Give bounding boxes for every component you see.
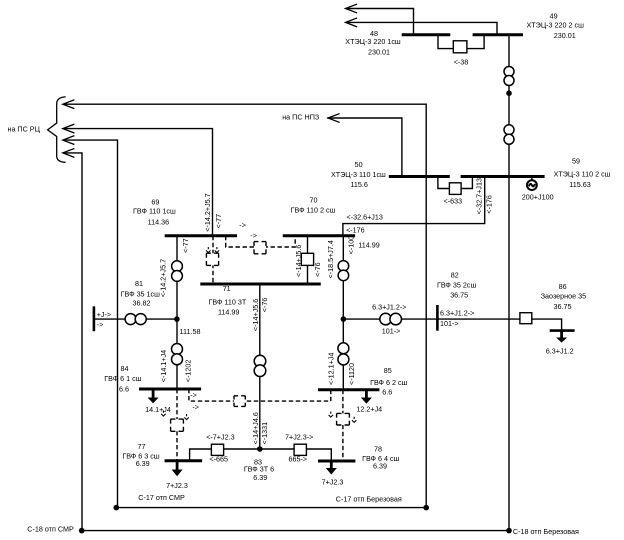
svg-text:ГВФ 6 1 сш: ГВФ 6 1 сш xyxy=(104,374,141,383)
svg-text:84: 84 xyxy=(121,364,129,373)
bus 48 ХТЭЦ-3 220 1сш xyxy=(402,33,451,36)
svg-text:->: -> xyxy=(97,320,104,329)
svg-text:<-32.7+J13: <-32.7+J13 xyxy=(474,178,483,214)
svg-text:101->: 101-> xyxy=(382,326,401,335)
svg-text:665->: 665-> xyxy=(289,455,308,464)
svg-text:<-14.1+J4: <-14.1+J4 xyxy=(159,350,168,382)
svg-text:36.82: 36.82 xyxy=(133,299,151,308)
svg-text:<-14+J5.6: <-14+J5.6 xyxy=(251,299,260,331)
flow mark 69-71 right xyxy=(215,247,219,253)
wire generator stub xyxy=(531,177,533,182)
svg-text:12.2+J4: 12.2+J4 xyxy=(356,405,382,414)
flow mark 85-78 right xyxy=(352,417,356,423)
svg-text:114.36: 114.36 xyxy=(148,218,169,227)
svg-text:<-7+J2.3: <-7+J2.3 xyxy=(206,433,234,442)
svg-text:<-1202: <-1202 xyxy=(183,360,192,383)
svg-text:7+J2.3->: 7+J2.3-> xyxy=(285,433,313,442)
node С-18 Березовая xyxy=(506,528,512,534)
svg-text:71: 71 xyxy=(223,284,231,293)
svg-text:ГВФ 110 3Т: ГВФ 110 3Т xyxy=(209,297,247,306)
svg-text:Заозерное 35: Заозерное 35 xyxy=(541,291,586,300)
wire bus77 to node83 xyxy=(190,449,213,461)
wire line to РЦ 1 / С-17 Березовая xyxy=(64,104,426,507)
open breaker 84-85 xyxy=(234,396,245,407)
svg-text:6.39: 6.39 xyxy=(373,462,387,471)
svg-text:6.39: 6.39 xyxy=(253,473,267,482)
svg-text:77: 77 xyxy=(138,442,146,451)
svg-text:49: 49 xyxy=(550,11,558,20)
load bus 85 xyxy=(361,390,372,404)
node С-17 СМР xyxy=(114,505,120,511)
load bus 78 xyxy=(326,461,337,475)
node 83 junction xyxy=(257,446,263,452)
flow mark 69-71 left xyxy=(206,247,210,253)
bus 71 ГВФ 110 3Т xyxy=(200,283,320,286)
wire bus81 horizontal xyxy=(94,318,177,320)
wire bus49-bus59-С-18 chain xyxy=(508,35,510,531)
svg-text:<-14+J5.6: <-14+J5.6 xyxy=(294,245,303,277)
svg-text:->: -> xyxy=(190,391,197,400)
svg-text:+J->: +J-> xyxy=(97,310,111,319)
generator 200+J100 xyxy=(527,180,537,190)
wire breaker 633 left leg xyxy=(438,177,450,189)
bus 78 ГВФ 6 4сш xyxy=(318,460,355,463)
bus 77 ГВФ 6 3сш xyxy=(165,459,203,462)
svg-text:114.99: 114.99 xyxy=(218,308,239,317)
open breaker 69-71 xyxy=(206,253,218,265)
svg-text:6.6: 6.6 xyxy=(382,387,392,396)
load Заозерное xyxy=(556,331,567,343)
svg-text:<-14+J4.6: <-14+J4.6 xyxy=(251,412,260,444)
arrowhead top 1 xyxy=(346,4,357,12)
open breaker 84-77 xyxy=(171,419,184,431)
transformer 48-59 lower xyxy=(504,125,514,145)
svg-text:на ПС РЦ: на ПС РЦ xyxy=(7,125,40,134)
wire breaker 38 left leg xyxy=(438,35,454,49)
bus 49 ХТЭЦ-3 220 2сш xyxy=(473,33,523,36)
svg-text:<-38: <-38 xyxy=(454,58,469,67)
svg-text:ГВФ 35 1сш: ГВФ 35 1сш xyxy=(121,290,160,299)
svg-text:С-17 отп СМР: С-17 отп СМР xyxy=(138,493,185,502)
transformer 71-83 xyxy=(254,355,266,376)
transformer 69-84 xyxy=(172,344,183,365)
svg-text:111.58: 111.58 xyxy=(180,327,201,336)
wire С-17 bottom rail xyxy=(116,507,426,509)
wire node83 to bus78 xyxy=(306,449,331,461)
svg-text:36.75: 36.75 xyxy=(554,302,572,311)
transformer 70-82 upper xyxy=(338,261,349,281)
node 86 Заозерное bar xyxy=(550,329,575,332)
bus 82 ГВФ 35 2сш tick xyxy=(436,305,439,331)
wire open tie 84-85 xyxy=(189,389,331,401)
arrowhead top 2 xyxy=(346,18,357,26)
svg-text:6.3+J1.2->: 6.3+J1.2-> xyxy=(372,302,406,311)
svg-text:->: -> xyxy=(192,402,199,411)
brace на ПС РЦ xyxy=(48,97,65,162)
svg-text:ГВФ 35 2сш: ГВФ 35 2сш xyxy=(437,281,476,290)
svg-text:<-18.5+J7.4: <-18.5+J7.4 xyxy=(326,240,335,278)
bus 85 ГВФ 6 2сш xyxy=(318,388,379,391)
svg-text:14.1+J4: 14.1+J4 xyxy=(145,405,171,414)
svg-text:36.75: 36.75 xyxy=(450,291,468,300)
svg-text:<-14.2+J5.7: <-14.2+J5.7 xyxy=(203,193,212,231)
svg-text:ХТЭЦ-3 110 1сш: ХТЭЦ-3 110 1сш xyxy=(331,170,386,179)
svg-text:<-665: <-665 xyxy=(209,455,228,464)
svg-text:ГВФ 110 2 сш: ГВФ 110 2 сш xyxy=(291,206,336,215)
breaker 633 xyxy=(449,183,461,195)
arrowhead РЦ 2 xyxy=(63,124,74,132)
wire bus82 horizontal xyxy=(343,318,520,320)
svg-text:ГВФ 110 1сш: ГВФ 110 1сш xyxy=(133,207,176,216)
svg-text:С-18 отп Березовая: С-18 отп Березовая xyxy=(513,527,579,536)
flow mark 85-78 left xyxy=(329,412,333,418)
svg-text:<-32.6+J13: <-32.6+J13 xyxy=(347,213,383,222)
svg-text:С-18 отп СМР: С-18 отп СМР xyxy=(27,524,74,533)
svg-text:6.3+J1.2: 6.3+J1.2 xyxy=(546,347,574,356)
svg-text:101->: 101-> xyxy=(440,319,459,328)
flow mark 84-77 right xyxy=(184,414,188,420)
svg-text:115.6: 115.6 xyxy=(350,180,367,189)
breaker 665 right xyxy=(294,444,306,455)
svg-text:<-12.1+J4: <-12.1+J4 xyxy=(327,353,336,385)
svg-text:69: 69 xyxy=(151,198,159,207)
flow mark 84-77 left xyxy=(161,411,165,417)
svg-text:78: 78 xyxy=(374,445,382,454)
svg-text:7+J2.3: 7+J2.3 xyxy=(166,481,188,490)
wire top line 2 (bus 49) xyxy=(347,22,498,34)
bus 69 ГВФ 110 1сш xyxy=(165,234,237,237)
svg-text:<-1120: <-1120 xyxy=(347,363,356,385)
breaker 665 left xyxy=(211,444,223,455)
node С-18 СМР xyxy=(79,528,85,534)
svg-text:70: 70 xyxy=(310,196,318,205)
wire bus71 to node83 vertical xyxy=(259,284,261,449)
load bus 77 xyxy=(172,461,183,477)
svg-text:на ПС НПЗ: на ПС НПЗ xyxy=(282,113,319,122)
wire line 70-71 xyxy=(307,236,309,284)
svg-text:230.01: 230.01 xyxy=(554,31,576,40)
bus 50 ХТЭЦ-3 110 1сш xyxy=(389,175,450,178)
svg-text:6.6: 6.6 xyxy=(119,384,129,393)
open breaker 69-70 xyxy=(254,242,266,254)
svg-text:<-76: <-76 xyxy=(260,298,269,313)
node 81 junction xyxy=(174,316,180,322)
svg-text:<-100: <-100 xyxy=(346,236,355,255)
arrowhead НПЗ xyxy=(328,114,339,122)
svg-text:С-17 отп Березовая: С-17 отп Березовая xyxy=(336,494,402,503)
node С-17 Березовая xyxy=(423,505,429,511)
wire line to РЦ 4 / С-18 СМР xyxy=(64,153,82,531)
svg-text:<-77: <-77 xyxy=(181,238,190,253)
wire open tie 69-70 xyxy=(226,236,296,247)
breaker 38 xyxy=(453,41,467,53)
wire open branch 84-77 xyxy=(176,389,178,461)
transformer 81 horizontal xyxy=(125,314,146,325)
svg-text:115.63: 115.63 xyxy=(569,180,590,189)
wire line to НПЗ (bus 50) xyxy=(328,118,402,177)
svg-text:85: 85 xyxy=(384,366,392,375)
svg-text:82: 82 xyxy=(451,270,459,279)
svg-text:->: -> xyxy=(239,221,246,230)
transformer 69-81 xyxy=(172,261,183,281)
svg-text:<-76: <-76 xyxy=(313,262,322,277)
wire node83 segment xyxy=(223,448,295,450)
svg-text:<-633: <-633 xyxy=(444,197,463,206)
wire line 59-70 xyxy=(343,177,485,236)
transformer 48-59 upper xyxy=(504,67,514,86)
svg-text:<-176: <-176 xyxy=(346,226,365,235)
svg-text:86: 86 xyxy=(559,282,567,291)
wire bus70 to bus85 vertical xyxy=(342,236,344,390)
transformer 82 horizontal xyxy=(380,313,402,325)
svg-text:ХТЭЦ-3 220 1сш: ХТЭЦ-3 220 1сш xyxy=(345,37,401,46)
wire bus69 to bus84 vertical xyxy=(176,236,178,389)
svg-text:7+J2.3: 7+J2.3 xyxy=(322,478,344,487)
svg-text:50: 50 xyxy=(355,160,363,169)
svg-text:->: -> xyxy=(250,231,257,240)
wire breaker 633 right leg xyxy=(461,177,473,189)
breaker Заозерное xyxy=(520,313,532,324)
svg-text:ХТЭЦ-3 110 2 сш: ХТЭЦ-3 110 2 сш xyxy=(554,169,611,178)
wire breaker 38 right leg xyxy=(467,35,485,49)
svg-text:ХТЭЦ-3 220 2 сш: ХТЭЦ-3 220 2 сш xyxy=(526,21,584,30)
wire top line 1 (bus 48) xyxy=(347,9,414,35)
open breaker 85-78 xyxy=(337,413,350,425)
wire open branch 85-78 xyxy=(342,390,344,461)
wire line to РЦ 3 / С-17 СМР xyxy=(64,140,118,508)
svg-text:81: 81 xyxy=(135,279,143,288)
wire С-18 bottom rail xyxy=(82,530,509,532)
wire Заозерное branch xyxy=(532,319,562,331)
bus 70 ГВФ 110 2сш xyxy=(283,234,355,237)
svg-text:<-77: <-77 xyxy=(214,214,223,229)
wire line to РЦ 2 (bus 69) xyxy=(64,129,213,236)
svg-text:6.3+J1.2->: 6.3+J1.2-> xyxy=(440,308,474,317)
bus 81 ГВФ 35 1сш tick xyxy=(93,306,96,331)
transformer 70-85 lower xyxy=(338,343,349,365)
svg-text:114.99: 114.99 xyxy=(358,241,379,250)
arrowhead РЦ 1 xyxy=(63,100,74,108)
wire open branch 69-71 xyxy=(212,236,214,284)
svg-text:<-1331: <-1331 xyxy=(260,422,269,445)
svg-text:6.39: 6.39 xyxy=(136,459,150,468)
svg-text:<-14.2+J5.7: <-14.2+J5.7 xyxy=(159,259,168,297)
bus 84 ГВФ 6 1сш xyxy=(139,388,201,391)
arrowhead РЦ 4 xyxy=(63,149,74,157)
svg-text:230.01: 230.01 xyxy=(368,48,390,57)
node between 220/110 transformers xyxy=(506,90,512,96)
breaker 70-71 xyxy=(301,253,313,265)
svg-text:200+J100: 200+J100 xyxy=(522,193,554,202)
arrowhead РЦ 3 xyxy=(63,136,74,144)
svg-text:59: 59 xyxy=(572,157,580,166)
load bus 84 xyxy=(148,389,159,403)
svg-text:<-176: <-176 xyxy=(485,195,494,214)
node 82 junction xyxy=(341,316,347,322)
bus 59 ХТЭЦ-3 110 2сш xyxy=(461,175,545,178)
svg-text:ГВФ 6 2 сш: ГВФ 6 2 сш xyxy=(370,378,407,387)
